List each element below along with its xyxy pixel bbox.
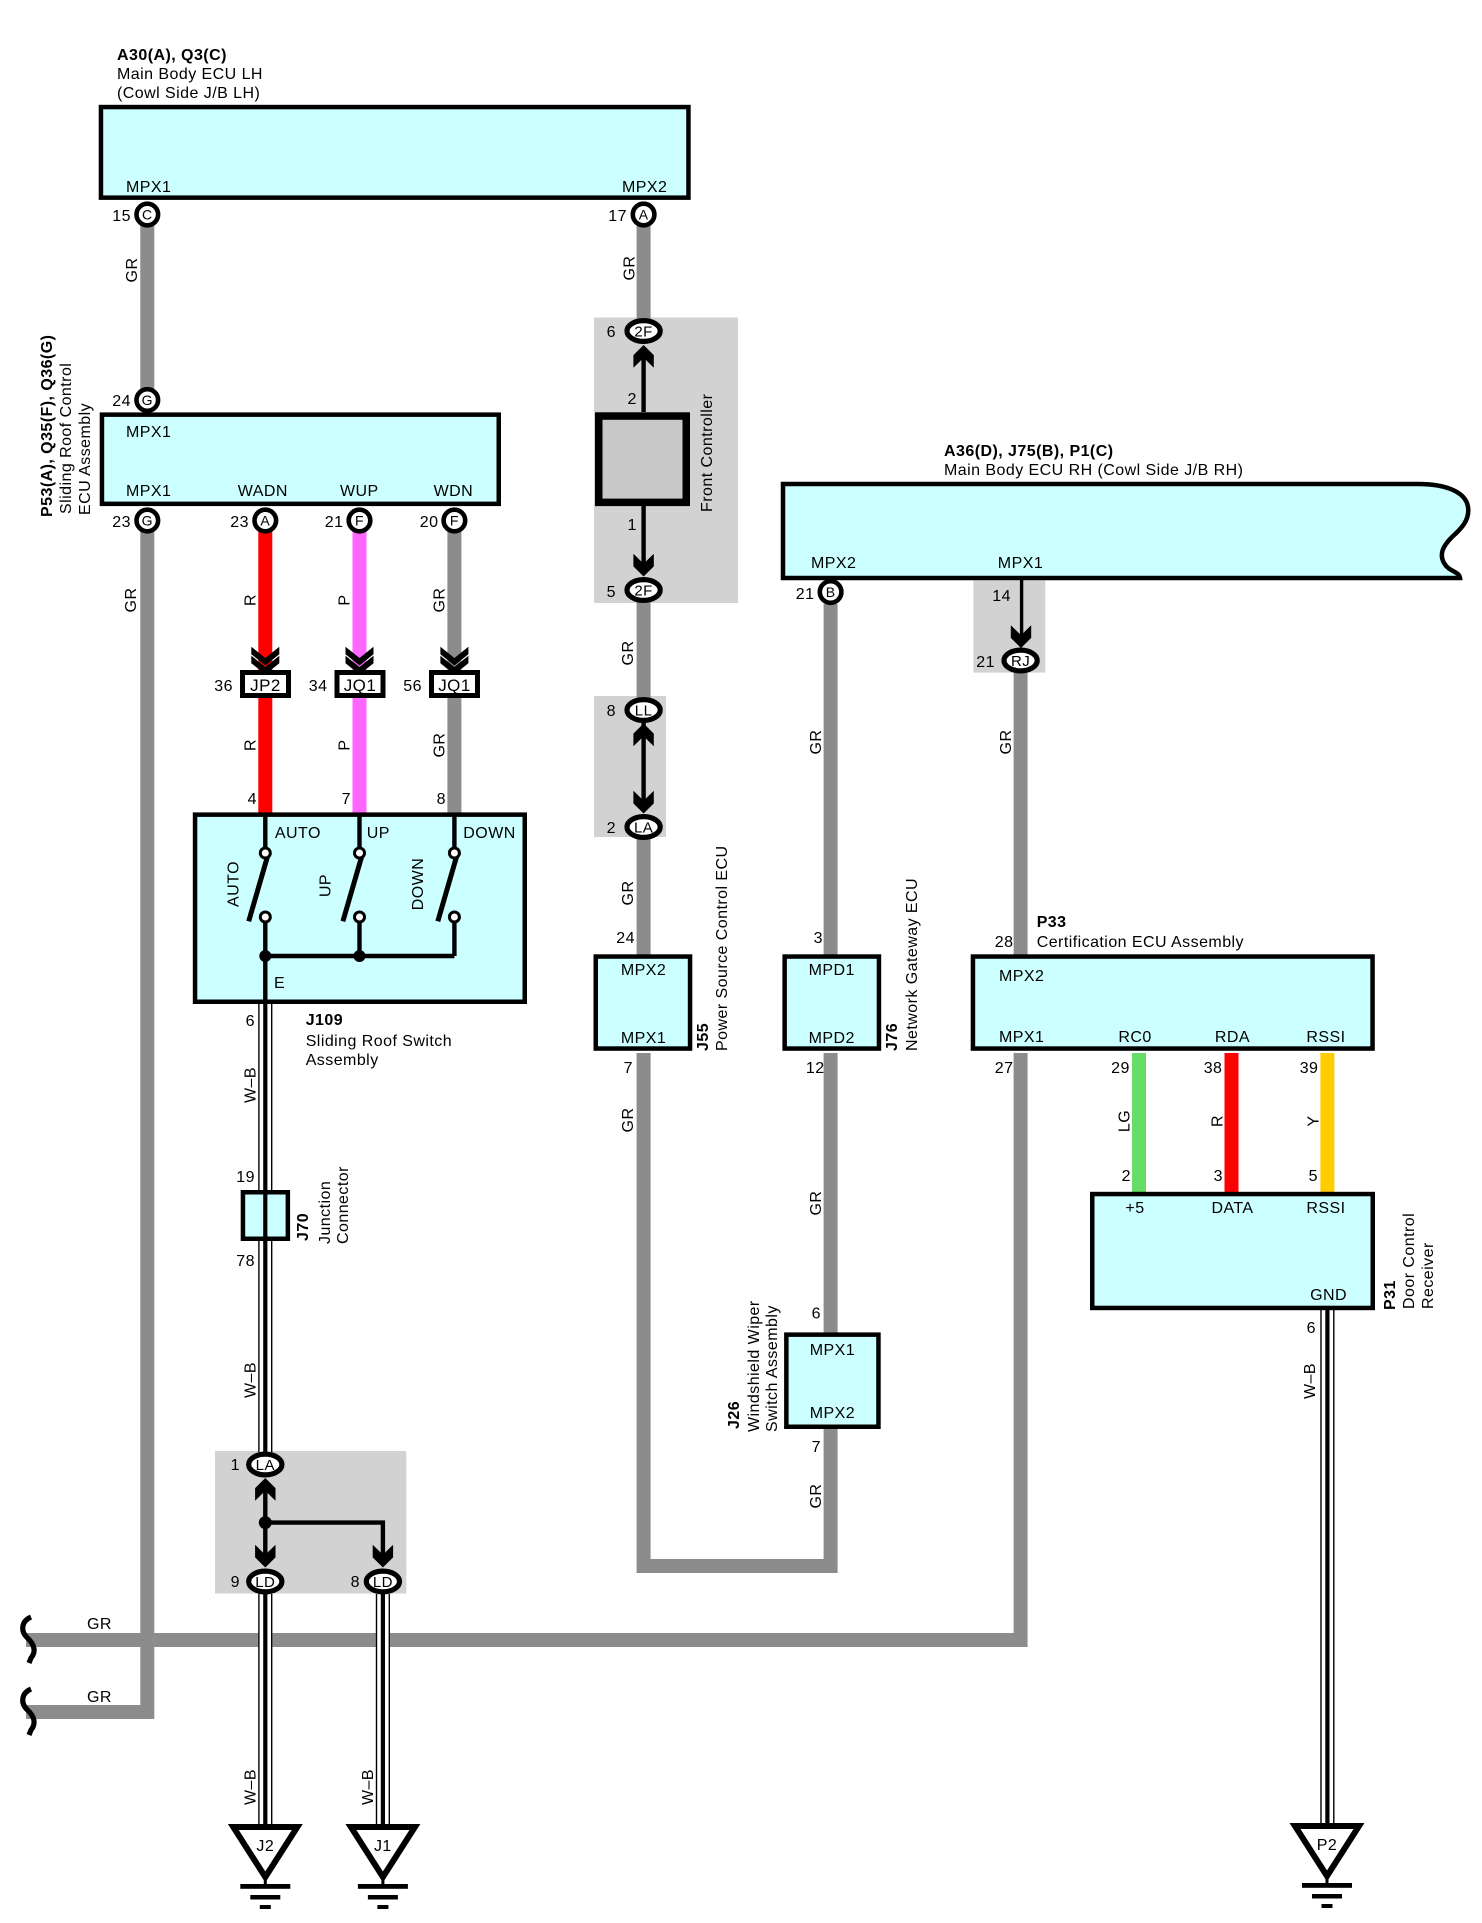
svg-text:7: 7 (624, 1060, 633, 1077)
svg-text:AUTO: AUTO (275, 825, 321, 842)
svg-text:JQ1: JQ1 (438, 676, 471, 695)
svg-text:Sliding Roof Switch: Sliding Roof Switch (306, 1033, 452, 1050)
svg-text:6: 6 (812, 1306, 821, 1323)
svg-text:3: 3 (1214, 1168, 1223, 1185)
svg-text:Sliding Roof Control: Sliding Roof Control (58, 363, 75, 514)
svg-text:9: 9 (231, 1574, 240, 1591)
svg-text:WDN: WDN (434, 483, 474, 500)
svg-text:MPD1: MPD1 (809, 962, 855, 979)
svg-text:MPX2: MPX2 (810, 1405, 855, 1422)
svg-text:G: G (142, 513, 153, 529)
svg-text:6: 6 (246, 1013, 255, 1030)
svg-text:Connector: Connector (335, 1166, 352, 1244)
svg-text:ECU Assembly: ECU Assembly (77, 403, 94, 515)
svg-text:W–B: W–B (360, 1769, 377, 1805)
svg-text:23: 23 (112, 514, 131, 531)
svg-text:J1: J1 (374, 1838, 392, 1855)
svg-text:Front Controller: Front Controller (699, 393, 716, 512)
svg-text:12: 12 (806, 1060, 825, 1077)
svg-text:24: 24 (616, 930, 635, 947)
svg-text:DOWN: DOWN (410, 858, 427, 910)
svg-text:Windshield Wiper: Windshield Wiper (746, 1300, 763, 1432)
svg-text:GR: GR (124, 258, 141, 283)
svg-text:27: 27 (995, 1060, 1014, 1077)
svg-text:MPX2: MPX2 (621, 962, 666, 979)
svg-text:GR: GR (620, 641, 637, 666)
svg-text:GR: GR (808, 730, 825, 755)
svg-text:24: 24 (112, 393, 131, 410)
svg-text:Main Body ECU LH: Main Body ECU LH (117, 66, 263, 83)
svg-text:17: 17 (608, 208, 627, 225)
svg-text:J109: J109 (306, 1012, 343, 1029)
svg-text:J26: J26 (726, 1401, 743, 1429)
svg-text:56: 56 (403, 678, 422, 695)
svg-text:R: R (242, 739, 259, 751)
svg-text:38: 38 (1204, 1060, 1223, 1077)
svg-text:E: E (274, 975, 285, 992)
svg-text:P31: P31 (1382, 1280, 1399, 1310)
svg-text:LD: LD (373, 1574, 393, 1591)
svg-text:+5: +5 (1125, 1200, 1144, 1217)
svg-text:GR: GR (622, 256, 639, 281)
svg-text:3: 3 (814, 930, 823, 947)
svg-text:7: 7 (812, 1439, 821, 1456)
svg-text:2: 2 (627, 391, 636, 408)
svg-text:UP: UP (318, 874, 335, 897)
svg-text:Y: Y (1305, 1115, 1322, 1126)
svg-text:WADN: WADN (238, 483, 288, 500)
svg-text:DOWN: DOWN (463, 825, 515, 842)
svg-text:6: 6 (1307, 1320, 1316, 1337)
svg-text:A30(A), Q3(C): A30(A), Q3(C) (117, 47, 227, 64)
svg-text:LL: LL (635, 703, 653, 720)
svg-text:GR: GR (123, 588, 140, 613)
svg-text:MPX1: MPX1 (126, 179, 171, 196)
svg-text:39: 39 (1300, 1060, 1319, 1077)
svg-text:Main Body ECU RH (Cowl Side J/: Main Body ECU RH (Cowl Side J/B RH) (944, 462, 1243, 479)
svg-text:Assembly: Assembly (306, 1052, 379, 1069)
svg-text:19: 19 (236, 1169, 255, 1186)
svg-text:F: F (355, 513, 364, 529)
svg-text:A36(D), J75(B), P1(C): A36(D), J75(B), P1(C) (944, 443, 1113, 460)
svg-text:P: P (337, 739, 354, 750)
svg-text:GR: GR (808, 1484, 825, 1509)
svg-text:7: 7 (342, 791, 351, 808)
svg-text:23: 23 (230, 514, 249, 531)
svg-text:J2: J2 (256, 1838, 274, 1855)
svg-text:Network Gateway ECU: Network Gateway ECU (904, 878, 921, 1051)
svg-text:2F: 2F (634, 324, 652, 341)
svg-text:AUTO: AUTO (226, 861, 243, 907)
svg-text:MPX2: MPX2 (811, 555, 856, 572)
svg-text:W–B: W–B (242, 1769, 259, 1805)
svg-text:21: 21 (796, 586, 815, 603)
svg-text:14: 14 (992, 588, 1011, 605)
svg-text:4: 4 (248, 791, 257, 808)
svg-text:W–B: W–B (1302, 1363, 1319, 1399)
svg-text:UP: UP (367, 825, 390, 842)
svg-text:MPX1: MPX1 (998, 555, 1043, 572)
svg-text:MPX1: MPX1 (621, 1030, 666, 1047)
svg-text:34: 34 (309, 678, 328, 695)
svg-text:W–B: W–B (242, 1067, 259, 1103)
svg-text:Junction: Junction (317, 1181, 334, 1244)
svg-text:JQ1: JQ1 (344, 676, 377, 695)
svg-text:GR: GR (431, 733, 448, 758)
svg-text:GND: GND (1310, 1287, 1347, 1304)
svg-text:R: R (242, 594, 259, 606)
svg-text:GR: GR (431, 588, 448, 613)
svg-text:MPX2: MPX2 (999, 968, 1044, 985)
svg-text:RJ: RJ (1011, 653, 1030, 670)
svg-text:Door Control: Door Control (1401, 1213, 1418, 1309)
svg-text:F: F (450, 513, 459, 529)
svg-text:P33: P33 (1037, 914, 1067, 931)
svg-text:8: 8 (351, 1574, 360, 1591)
svg-text:20: 20 (420, 514, 439, 531)
svg-text:8: 8 (607, 703, 616, 720)
svg-text:2: 2 (607, 820, 616, 837)
svg-text:R: R (1209, 1115, 1226, 1127)
svg-text:29: 29 (1111, 1060, 1130, 1077)
svg-text:Power Source Control ECU: Power Source Control ECU (714, 845, 731, 1051)
svg-text:WUP: WUP (340, 483, 379, 500)
svg-text:LA: LA (256, 1457, 275, 1474)
svg-text:GR: GR (620, 1108, 637, 1133)
svg-text:(Cowl Side J/B LH): (Cowl Side J/B LH) (117, 85, 260, 102)
svg-text:A: A (260, 513, 270, 529)
svg-text:21: 21 (976, 654, 995, 671)
svg-text:J76: J76 (884, 1023, 901, 1051)
svg-text:MPX1: MPX1 (126, 483, 171, 500)
svg-text:21: 21 (325, 514, 344, 531)
svg-text:MPX2: MPX2 (622, 179, 667, 196)
svg-text:LD: LD (255, 1574, 275, 1591)
svg-text:MPX1: MPX1 (126, 424, 171, 441)
svg-text:GR: GR (998, 730, 1015, 755)
svg-text:B: B (826, 584, 836, 600)
svg-text:JP2: JP2 (250, 676, 281, 695)
svg-text:Certification ECU Assembly: Certification ECU Assembly (1037, 934, 1244, 951)
svg-text:GR: GR (620, 881, 637, 906)
svg-text:A: A (639, 207, 649, 223)
svg-text:5: 5 (1309, 1168, 1318, 1185)
svg-text:P: P (337, 594, 354, 605)
svg-text:MPX1: MPX1 (999, 1029, 1044, 1046)
svg-text:J70: J70 (295, 1213, 312, 1241)
svg-text:DATA: DATA (1211, 1200, 1253, 1217)
svg-text:J55: J55 (695, 1023, 712, 1051)
svg-text:GR: GR (87, 1689, 112, 1706)
svg-text:Receiver: Receiver (1420, 1242, 1437, 1309)
svg-text:36: 36 (214, 678, 233, 695)
svg-text:GR: GR (87, 1616, 112, 1633)
svg-text:1: 1 (627, 517, 636, 534)
svg-text:GR: GR (808, 1191, 825, 1216)
svg-text:6: 6 (607, 324, 616, 341)
svg-text:RSSI: RSSI (1306, 1029, 1345, 1046)
svg-text:8: 8 (437, 791, 446, 808)
svg-text:LG: LG (1116, 1110, 1133, 1132)
svg-text:Switch Assembly: Switch Assembly (764, 1305, 781, 1432)
svg-text:RC0: RC0 (1118, 1029, 1151, 1046)
svg-text:RSSI: RSSI (1306, 1200, 1345, 1217)
svg-text:5: 5 (607, 584, 616, 601)
svg-text:2F: 2F (634, 583, 652, 600)
svg-text:1: 1 (231, 1457, 240, 1474)
svg-text:15: 15 (112, 208, 131, 225)
svg-text:RDA: RDA (1215, 1029, 1250, 1046)
svg-text:78: 78 (236, 1253, 255, 1270)
svg-text:LA: LA (634, 820, 653, 837)
svg-text:W–B: W–B (242, 1362, 259, 1398)
svg-text:28: 28 (995, 934, 1014, 951)
svg-text:G: G (142, 392, 153, 408)
svg-text:C: C (142, 207, 153, 223)
svg-text:P2: P2 (1317, 1837, 1337, 1854)
svg-text:MPX1: MPX1 (810, 1342, 855, 1359)
svg-text:2: 2 (1122, 1168, 1131, 1185)
svg-text:MPD2: MPD2 (809, 1030, 855, 1047)
svg-text:P53(A), Q35(F), Q36(G): P53(A), Q35(F), Q36(G) (39, 335, 56, 517)
